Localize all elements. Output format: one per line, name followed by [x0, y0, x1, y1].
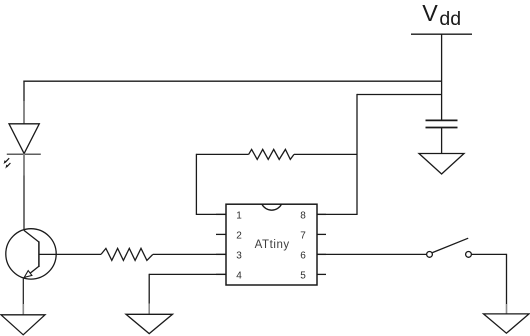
transistor Q1 (NPN) — [6, 229, 56, 279]
resistor R1 (base) — [101, 248, 153, 260]
svg-text:ATtiny: ATtiny — [255, 239, 290, 251]
svg-text:V: V — [422, 0, 438, 26]
ground (below pin 4) — [126, 314, 173, 333]
pin 8 stub and label — [317, 213, 326, 215]
power label Vdd — [422, 0, 461, 30]
wire resistor R2 to riser — [294, 153, 357, 155]
wire pin 1 riser — [196, 154, 248, 215]
wire base to resistor — [39, 253, 101, 255]
capacitor C1 — [426, 120, 458, 153]
wire pin 6 to switch — [317, 253, 427, 255]
wire LED to transistor collector — [23, 176, 25, 231]
wire Vdd vertical drop — [441, 34, 443, 120]
pin 6 stub and label — [317, 253, 326, 255]
svg-text:4: 4 — [236, 271, 242, 282]
svg-text:6: 6 — [300, 251, 306, 262]
LED D1 — [4, 101, 41, 176]
wire emitter to ground — [22, 279, 24, 315]
pin 1 stub and label — [216, 213, 226, 215]
pin 2 stub and label — [216, 233, 226, 235]
svg-text:8: 8 — [300, 211, 306, 222]
wire pin 4 to ground — [149, 274, 226, 315]
wire top rail — [23, 80, 441, 82]
svg-text:dd: dd — [439, 8, 461, 30]
svg-text:5: 5 — [300, 271, 306, 282]
ground (under capacitor) — [419, 154, 464, 175]
svg-text:3: 3 — [236, 251, 242, 262]
pin 7 stub and label — [317, 233, 326, 235]
svg-text:1: 1 — [236, 211, 242, 222]
svg-text:7: 7 — [300, 231, 306, 242]
pin 3 stub and label — [216, 253, 226, 255]
wire left drop to LED — [23, 81, 25, 102]
pin 4 stub and label — [216, 273, 226, 275]
ground (bottom right) — [484, 314, 530, 333]
wire switch to ground — [471, 254, 506, 314]
IC U1 ATtiny — [226, 204, 317, 285]
svg-text:2: 2 — [236, 231, 242, 242]
wire second rail to pin 8 riser — [317, 94, 442, 214]
power rail bar Vdd — [411, 33, 472, 35]
resistor R2 (feedback, pin1 to pin8 rail) — [249, 149, 294, 159]
switch S1 — [427, 238, 472, 257]
pin 5 stub and label — [317, 273, 326, 275]
ground (below transistor) — [1, 315, 45, 335]
wire resistor to pin 3 — [153, 253, 226, 255]
